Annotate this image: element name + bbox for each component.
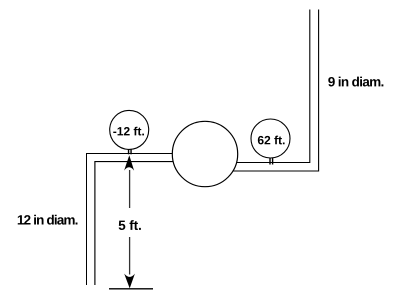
suction pipe outer wall (left vertical + top horizontal) [87,154,206,286]
height dimension label [119,220,141,230]
pump circle [172,121,237,186]
discharge pipe outer wall (bottom horizontal + right vertical) [205,10,319,172]
down arrowhead [124,274,135,289]
suction pipe diameter label [18,215,78,225]
suction gauge label [113,127,144,136]
discharge gauge stem ticks [269,156,271,165]
suction gauge stem ticks [128,148,130,155]
suction pipe inner wall [95,162,205,285]
discharge pipe diameter label [328,77,383,87]
suction pressure gauge circle [110,110,149,149]
discharge pipe inner wall (top horizontal + left vertical) [205,10,310,163]
discharge pressure gauge circle [251,119,290,158]
dimension arrow shaft lower [129,237,131,275]
up arrowhead [124,155,134,170]
discharge gauge label [258,136,285,145]
dimension arrow shaft upper [129,170,131,208]
datum ground line [109,288,153,290]
